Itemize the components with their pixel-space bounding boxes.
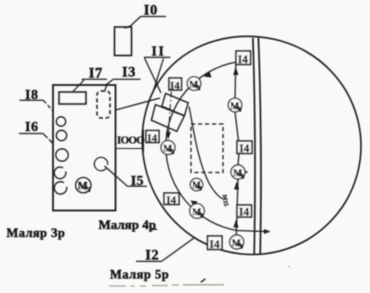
label 12	[136, 238, 194, 264]
rect item 10	[115, 27, 132, 56]
dashed rectangle (work zone)	[191, 124, 223, 173]
open circle item 15	[94, 157, 107, 170]
dash-dot centerline through item 11	[168, 79, 172, 137]
up arrow below box B1	[233, 67, 238, 76]
svg-text:Маляр 5р: Маляр 5р	[110, 268, 169, 282]
bench circle 1	[56, 117, 65, 126]
label 11	[144, 43, 170, 93]
inner arc (painter path)	[166, 62, 265, 232]
label 10	[125, 3, 167, 29]
svg-text:Маляр 4р: Маляр 4р	[99, 217, 156, 232]
box 14 B6	[146, 131, 159, 145]
stray mark after 4r	[150, 228, 157, 230]
dimension 1000 line	[115, 148, 144, 150]
wire bench to item 11	[116, 98, 161, 110]
arrowhead on arc into M3	[204, 72, 212, 78]
svg-text:I4: I4	[238, 54, 248, 66]
label 13	[105, 65, 141, 92]
painter circle M2 on bench	[76, 178, 91, 194]
wall line right	[258, 38, 261, 255]
painter circle M8 (on path arc)	[190, 204, 205, 220]
svg-text:I4: I4	[170, 80, 180, 92]
svg-text:М15: М15	[221, 194, 229, 207]
svg-text:IOOO: IOOO	[117, 134, 145, 146]
svg-text:I4: I4	[166, 195, 176, 207]
svg-text:II: II	[152, 43, 166, 58]
bench circle 4 (open arc)	[54, 167, 66, 179]
up arrow above M8	[233, 220, 238, 228]
workbench rectangle	[53, 85, 116, 211]
station column line along wall	[234, 65, 237, 99]
arrowhead down to M5	[166, 132, 171, 140]
svg-text:I4: I4	[209, 239, 219, 251]
box 14 B5	[169, 78, 182, 92]
svg-text:I3: I3	[122, 65, 136, 81]
box 14 B4 bottom-left	[208, 236, 223, 251]
svg-text:I8: I8	[25, 88, 38, 103]
svg-text:I4: I4	[239, 143, 249, 155]
box 14 B7	[164, 193, 179, 207]
svg-text:I6: I6	[25, 120, 38, 135]
painter circle M7 (middle zone)	[190, 178, 202, 192]
wall line left	[253, 38, 255, 255]
label 18	[20, 88, 54, 111]
svg-text:I4: I4	[239, 207, 249, 219]
tilted rectangle item 11 lower	[151, 105, 184, 132]
dashed rounded rect 13	[97, 91, 110, 118]
stray slash after 5r	[201, 279, 206, 283]
bench circle 3	[56, 149, 68, 161]
painter circle M9 at wall	[230, 235, 244, 250]
shelf rect 17	[59, 92, 86, 104]
box 14 B1 top	[236, 51, 251, 66]
faint cut-off text dashes at bottom	[109, 285, 224, 286]
label 15	[105, 166, 148, 189]
painter circle M3	[187, 77, 201, 92]
bench circle 2	[56, 130, 66, 140]
tilted rectangle item 11 upper	[162, 93, 188, 115]
painter circle M5	[161, 141, 175, 156]
svg-text:I4: I4	[147, 132, 157, 144]
flow S-curve from item 11 down	[189, 107, 223, 200]
faint speck	[288, 266, 289, 267]
painter circle M4	[228, 98, 242, 113]
outer circle (item 12, painted article)	[142, 36, 361, 254]
arrowhead on arc into M7	[191, 201, 198, 208]
painter circle M6	[231, 165, 248, 180]
up arrow below M6	[234, 182, 239, 190]
label 16	[19, 120, 53, 143]
dimension 1000 tick	[143, 130, 145, 153]
bench circle 5 (open arc)	[54, 182, 66, 194]
svg-text:Маляр Зр: Маляр Зр	[7, 226, 66, 240]
label 17	[73, 66, 107, 92]
arrowhead right end of path	[264, 229, 271, 234]
box 14 B3	[237, 205, 252, 219]
box 14 B2	[237, 141, 252, 155]
